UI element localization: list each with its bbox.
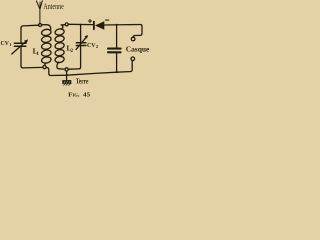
inductor L2 xyxy=(55,25,65,69)
wire node A to bottom rail xyxy=(46,67,51,75)
diode D xyxy=(88,19,108,29)
antenna xyxy=(36,1,42,24)
node top terminal xyxy=(65,23,68,26)
junction dot C bottom xyxy=(116,71,118,73)
capacitor CV1 xyxy=(12,28,28,66)
paper background xyxy=(0,0,152,100)
svg-text:Casque: Casque xyxy=(126,44,150,53)
junction dot ground xyxy=(66,74,68,76)
capacitor C fixed xyxy=(108,25,121,72)
wire rail antenna to L1 xyxy=(42,25,51,30)
svg-text:Antenne: Antenne xyxy=(43,1,64,11)
svg-text:CV: CV xyxy=(87,42,96,49)
junction dot C top xyxy=(116,24,118,26)
junction dot CV2 top xyxy=(80,24,82,26)
wire node B to ground xyxy=(66,71,68,80)
node antenna junction xyxy=(39,24,42,27)
node B junction L2/CV2 bottom xyxy=(65,68,68,71)
wire top-left rail xyxy=(21,25,39,28)
inductor L1 xyxy=(41,29,51,66)
casque terminal bottom xyxy=(131,57,135,61)
svg-text:Fig. 45: Fig. 45 xyxy=(68,92,90,99)
node A junction L1/CV1 xyxy=(43,66,46,69)
svg-text:CV: CV xyxy=(1,40,10,47)
casque terminal top xyxy=(131,37,135,41)
capacitor CV2 xyxy=(69,25,89,70)
wire bottom rail xyxy=(51,61,133,76)
wire bottom-left rail xyxy=(21,66,42,68)
svg-text:Terre: Terre xyxy=(76,77,89,85)
wire diode to right corner xyxy=(104,25,142,38)
wire top rail right section xyxy=(61,24,64,26)
ground Terre xyxy=(62,80,71,85)
